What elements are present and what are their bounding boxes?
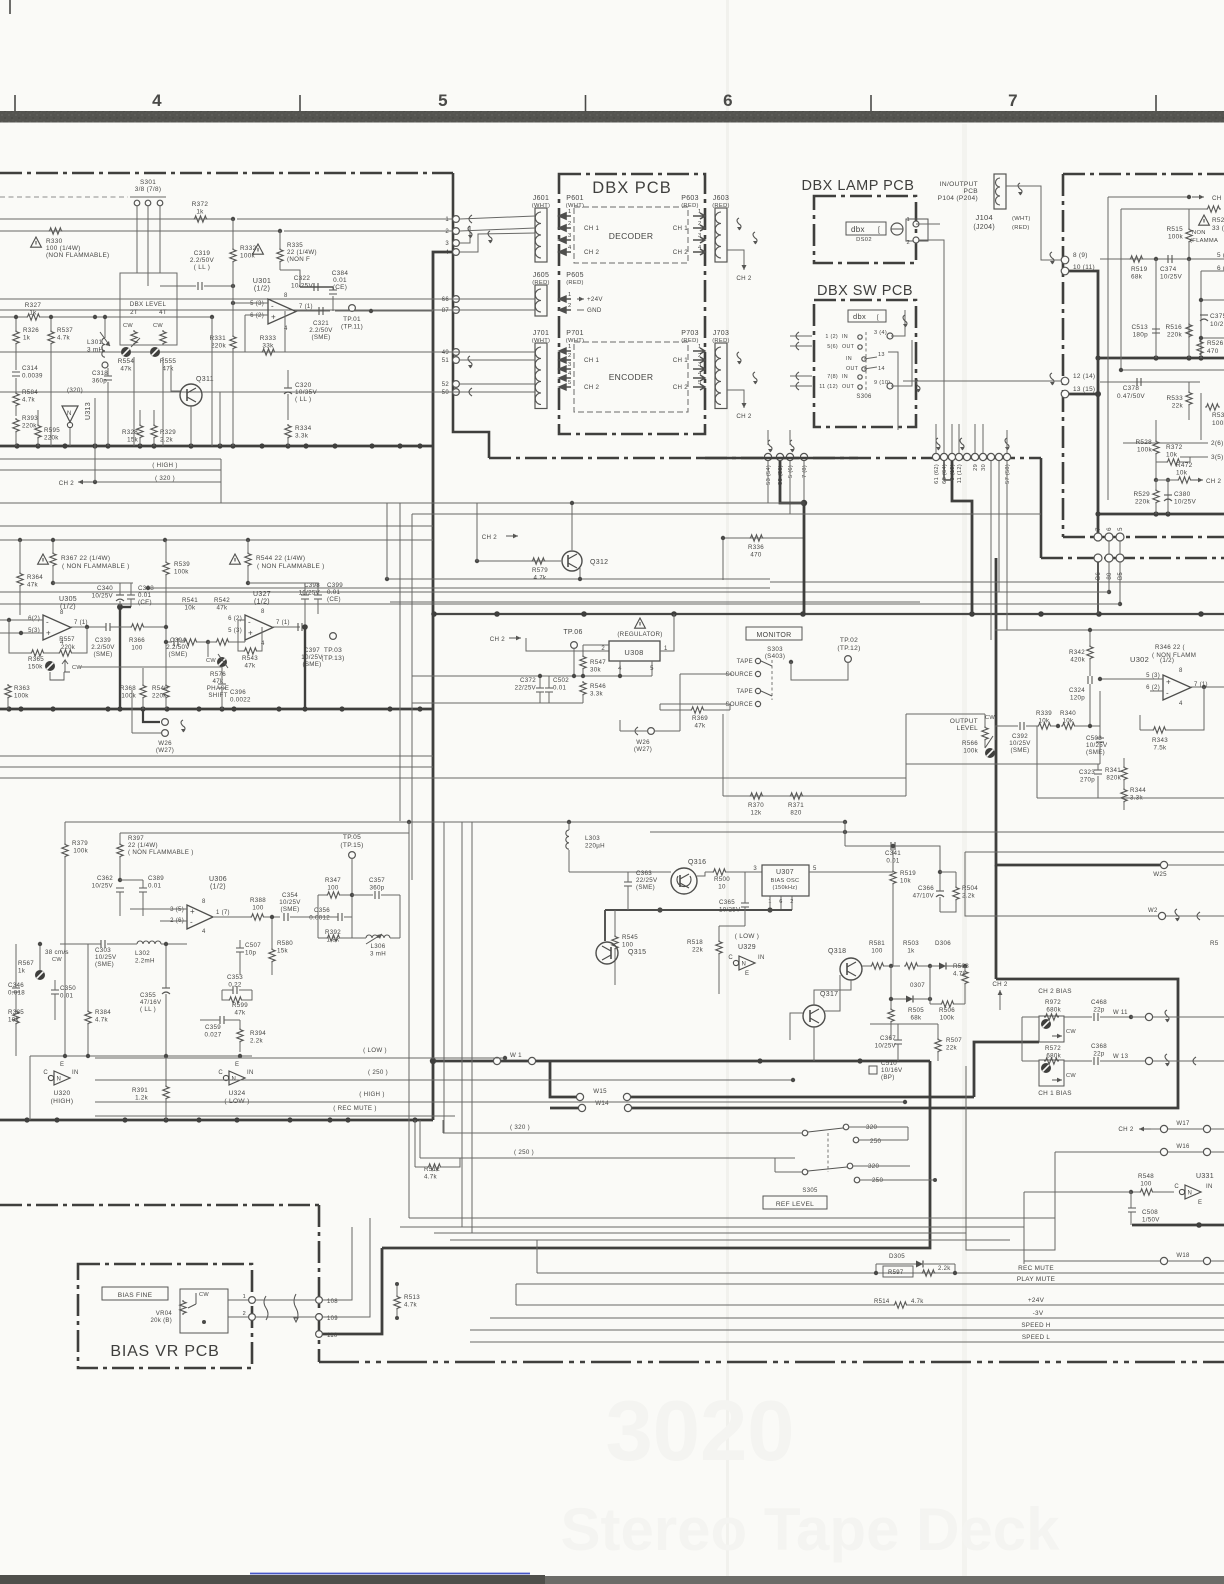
svg-text:DBX LAMP PCB: DBX LAMP PCB [802,178,915,194]
svg-text:N: N [1188,1191,1192,1197]
svg-text:6: 6 [723,91,733,110]
svg-text:Q316: Q316 [688,859,706,866]
svg-text:4.7k: 4.7k [95,1017,109,1024]
connector circles 53 55 5 7 [764,453,771,460]
page corner mark [9,0,11,14]
svg-text:(NON FLAMMABLE): (NON FLAMMABLE) [46,252,109,259]
svg-text:( LL ): ( LL ) [194,264,210,271]
wires U301 [233,302,268,304]
resistor R369 [660,709,690,711]
svg-text:3 mH: 3 mH [87,347,104,354]
svg-text:N: N [742,962,746,968]
svg-text:15k: 15k [277,948,288,955]
svg-text:10 (11): 10 (11) [1073,264,1095,271]
connector 108 109 110 [316,1297,323,1304]
wires below B pins [1097,562,1099,614]
svg-text:47k: 47k [162,366,174,373]
svg-text:1/50V: 1/50V [1142,1217,1160,1224]
svg-text:10/35V: 10/35V [295,389,317,396]
svg-text:TP.02: TP.02 [840,637,858,644]
svg-text:(HIGH): (HIGH) [51,1098,74,1105]
svg-text:38 cm/s: 38 cm/s [45,949,69,956]
svg-text:U305: U305 [59,596,77,603]
svg-text:Q311: Q311 [196,376,214,383]
svg-text:C365: C365 [719,899,735,906]
svg-text:5 (3): 5 (3) [228,628,242,634]
line y=703 mid [412,702,583,704]
inverter U324 [223,1075,228,1080]
svg-text:22k: 22k [1172,403,1184,410]
svg-text:+: + [1166,678,1171,687]
svg-text:CW: CW [199,1292,209,1298]
svg-text:C508: C508 [1142,1209,1158,1216]
svg-text:REF LEVEL: REF LEVEL [776,1201,814,1208]
svg-text:( 320 ): ( 320 ) [510,1124,530,1131]
svg-text:P601: P601 [566,195,584,202]
svg-text:6 (2): 6 (2) [250,313,264,319]
svg-text:(SME): (SME) [95,961,114,968]
svg-text:R554: R554 [118,358,135,365]
wire row y=231 [0,230,280,232]
svg-text:3/8 (7/8): 3/8 (7/8) [135,186,162,193]
svg-text:(TP.11): (TP.11) [341,324,363,331]
wires Q317 [790,1013,803,1040]
svg-text:220k: 220k [22,423,37,430]
W26 right jumper [635,727,638,735]
svg-text:4.7k: 4.7k [22,397,36,404]
svg-text:(FLAMMA: (FLAMMA [1190,238,1218,244]
svg-text:R519: R519 [1131,266,1148,273]
svg-text:680k: 680k [1046,1007,1061,1014]
svg-text:C378: C378 [1123,385,1140,392]
svg-text:7.5k: 7.5k [1154,745,1168,752]
svg-text:CH 2: CH 2 [584,384,600,391]
wires U308 [660,614,674,651]
svg-text:(RED): (RED) [532,280,550,286]
ruler tick marks [14,95,16,111]
connector J603 [715,208,727,262]
lines above U320 [30,1055,252,1057]
svg-text:C375: C375 [1210,313,1224,320]
long line y=592 [0,591,1109,593]
svg-text:0.0022: 0.0022 [230,697,251,704]
mid bus y=614 [433,613,1224,615]
svg-text:R347: R347 [325,877,341,884]
svg-text:420k: 420k [1070,657,1085,664]
pins 12(14) 13(15) [1061,377,1069,385]
BIAS VR pins 1 2 [249,1297,256,1304]
svg-text:R339: R339 [1036,710,1052,717]
IN/OUTPUT PCB bottom border [1063,536,1224,539]
svg-text:CH 2: CH 2 [59,480,75,487]
svg-text:(S403): (S403) [765,653,785,660]
svg-text:R391: R391 [132,1087,148,1094]
svg-text:W16: W16 [1176,1144,1190,1150]
wires 108 109 110 right [323,1227,352,1300]
thick net 13(15) [1069,393,1098,396]
W15 jumper circles [576,1093,583,1100]
W14 thick line [550,1107,582,1110]
svg-text:220µH: 220µH [585,843,605,850]
wire J703 out CH2 [727,390,744,408]
svg-text:4: 4 [1179,701,1183,707]
svg-text:R516: R516 [1166,324,1183,331]
twist pair symbols [264,1296,268,1320]
svg-text:BIAS OSC: BIAS OSC [771,878,800,884]
svg-text:0.01: 0.01 [333,277,347,284]
svg-text:(1/2): (1/2) [254,284,270,293]
svg-text:R576: R576 [210,671,226,678]
svg-text:(RED): (RED) [681,338,699,344]
svg-text:BIAS FINE: BIAS FINE [118,1292,153,1299]
svg-text:N: N [57,1077,61,1083]
resistor R334 [285,424,291,439]
svg-text:R330: R330 [46,238,63,245]
svg-text:3 (5): 3 (5) [170,907,184,913]
svg-text:51: 51 [442,358,450,364]
svg-text:250: 250 [870,1138,881,1145]
svg-text:3: 3 [568,362,572,368]
svg-text:R508: R508 [953,963,969,970]
svg-text:30k: 30k [590,667,601,674]
thick bus y=514 right [1098,513,1224,516]
svg-text:(150kHz): (150kHz) [772,885,797,891]
svg-text:R346 22 (: R346 22 ( [1155,644,1186,651]
svg-text:E: E [745,971,749,977]
svg-text:R365: R365 [28,656,44,663]
long rows y=1218-1246 [409,1217,1055,1219]
svg-text:CH 1: CH 1 [673,357,689,364]
top ruler bar [0,111,1224,123]
svg-text:(J204): (J204) [973,224,995,231]
ENCODER dashed box [574,342,688,412]
svg-text:110: 110 [327,1333,338,1339]
svg-text:10k: 10k [185,605,196,612]
svg-text:CW: CW [52,957,62,963]
svg-text:820: 820 [790,810,801,817]
solid border overlay at connector group [700,457,858,460]
wires U331 [1024,1191,1131,1193]
wire U301 out row [335,310,433,312]
svg-text:10/25V: 10/25V [875,1043,897,1050]
svg-text:(SME): (SME) [1086,749,1105,756]
svg-text:2: 2 [568,353,572,359]
svg-text:+: + [190,907,195,916]
svg-text:7 (8): 7 (8) [802,465,808,478]
svg-text:( NON FLAMMABLE ): ( NON FLAMMABLE ) [62,563,130,570]
svg-text:U327: U327 [253,591,271,598]
dbx logo box DS02 [846,222,886,235]
svg-text:L306: L306 [371,943,386,950]
svg-text:R503: R503 [903,940,919,947]
trimmer wires down [133,357,135,446]
CH1 BIAS thick return y=1225 [1132,1224,1224,1227]
R370 R371 row [723,795,906,797]
svg-text:SHIFT: SHIFT [208,692,227,699]
svg-text:E: E [60,1062,64,1068]
svg-text:C340: C340 [97,585,113,592]
svg-text:5 (3): 5 (3) [1146,673,1160,679]
svg-text:( LOW ): ( LOW ) [363,1047,387,1054]
svg-text:22/25V: 22/25V [636,877,658,884]
wire row y=219 R372 [0,218,233,220]
svg-text:U324: U324 [229,1090,246,1097]
svg-text:2: 2 [698,221,702,227]
svg-text:2: 2 [243,1311,246,1317]
trimmer R576 phase shift [217,657,227,667]
svg-text:4: 4 [202,929,206,935]
svg-text:R329: R329 [160,429,176,436]
svg-text:4: 4 [698,371,702,377]
long line y=832 [650,831,1224,833]
svg-text:CH: CH [1212,195,1222,202]
svg-text:2.2k: 2.2k [962,893,976,900]
connector J703 [715,343,727,409]
svg-text:8: 8 [1179,668,1183,674]
svg-text:( NON FLAMMABLE ): ( NON FLAMMABLE ) [128,849,194,856]
svg-text:(WHT): (WHT) [532,338,551,344]
wire J603 out CH2 [727,250,744,270]
svg-text:dbx: dbx [851,225,865,234]
connector J701 [535,343,547,409]
svg-text:( 250 ): ( 250 ) [368,1069,388,1076]
svg-text:(1/2): (1/2) [254,599,270,606]
svg-text:( NON FLAMMABLE ): ( NON FLAMMABLE ) [257,563,325,570]
svg-text:R367 22 (1/4W): R367 22 (1/4W) [61,555,110,562]
svg-text:68k: 68k [1131,274,1143,281]
svg-text:2.2/50V: 2.2/50V [309,327,333,334]
svg-text:-: - [1166,689,1169,698]
svg-text:R343: R343 [1152,737,1168,744]
svg-text:VR04: VR04 [156,1311,173,1317]
svg-text:IN: IN [842,334,848,340]
svg-text:220k: 220k [1135,499,1151,506]
op-amp box right partial [1201,270,1224,272]
resistor R336 [723,537,803,539]
W15 thick line [550,1061,580,1097]
svg-text:DBX LEVEL: DBX LEVEL [130,301,167,308]
svg-text:R529: R529 [1134,491,1151,498]
svg-text:(1/2): (1/2) [210,884,226,891]
svg-text:(TP.13): (TP.13) [321,655,344,662]
svg-text:D306: D306 [935,940,951,947]
svg-text:PCB: PCB [964,188,979,195]
svg-text:4: 4 [568,371,572,377]
lamp DS02 symbol [891,223,903,235]
svg-text:R541: R541 [182,597,198,604]
svg-text:C354: C354 [282,892,298,899]
svg-text:3: 3 [698,362,702,368]
svg-text:(CE): (CE) [327,596,341,603]
svg-text:C: C [218,1070,223,1076]
svg-text:2: 2 [601,646,605,652]
svg-text:IN: IN [1206,1184,1213,1190]
MONITOR box [746,627,802,640]
svg-text:5 (6): 5 (6) [788,465,794,478]
svg-text:R580: R580 [277,940,293,947]
svg-text:R328: R328 [122,429,138,436]
svg-text:L302: L302 [135,950,150,957]
TP03 [330,633,337,640]
connector J601 [535,208,547,262]
svg-text:100k: 100k [1168,234,1184,241]
svg-text:63 (64): 63 (64) [942,464,948,484]
trimmer R972 [1039,1016,1064,1042]
svg-text:4: 4 [152,91,162,110]
svg-text:R393: R393 [22,415,38,422]
resistor R367 warning [52,540,54,552]
main PCB pins 49 51 52 50 [453,349,460,356]
svg-text:( HIGH ): ( HIGH ) [359,1091,384,1098]
svg-text:( LL ): ( LL ) [140,1006,156,1013]
svg-text:C303: C303 [95,947,111,954]
svg-text:2(6): 2(6) [1211,440,1224,447]
svg-text:R599: R599 [232,1002,248,1009]
svg-text:R544 22 (1/4W): R544 22 (1/4W) [256,555,305,562]
svg-text:TP.05: TP.05 [343,834,361,841]
wires U306 [130,908,187,910]
svg-text:R342: R342 [1069,649,1085,656]
svg-text:TP.01: TP.01 [343,316,361,323]
long line y=540 [0,539,433,541]
svg-text:CH 2: CH 2 [992,981,1008,988]
svg-text:L301: L301 [87,339,103,346]
svg-text:820k: 820k [1106,775,1121,782]
DBX LEVEL box [120,273,177,345]
svg-text:C397: C397 [304,647,320,654]
lower PCB border vertical x=319 [318,1205,321,1362]
bus vertical x=433 [433,252,452,1120]
svg-text:1: 1 [568,344,572,350]
svg-text:4.7k: 4.7k [911,1299,924,1305]
svg-text:10/25V: 10/25V [92,883,114,890]
svg-text:J603: J603 [713,195,729,202]
bus y=910 bias [605,909,792,911]
svg-text:OUT: OUT [846,366,859,372]
svg-text:P703: P703 [681,330,699,337]
svg-text:CH 2: CH 2 [482,534,498,541]
svg-text:(RED): (RED) [712,203,730,209]
svg-text:[: [ [878,227,880,234]
DBX PCB outline box [559,174,705,434]
svg-text:R542: R542 [214,597,230,604]
svg-text:CW: CW [153,323,163,329]
long line y=630 right [995,629,1224,631]
svg-text:10/25V: 10/25V [1009,740,1031,747]
line y=503 mid [387,502,803,504]
svg-text:R518: R518 [687,939,703,946]
svg-text:SPEED H: SPEED H [1021,1322,1050,1329]
svg-text:CW: CW [1066,1029,1076,1035]
svg-text:R526: R526 [1207,340,1224,347]
switch right contacts wires [849,1126,908,1128]
W26 left jumper [143,709,160,722]
svg-text:3 mH: 3 mH [370,951,386,958]
ground bus y=1120 [0,1119,433,1122]
thick riser x=382 to BIAS VR line [319,1248,382,1334]
transistor Q312 [562,551,582,571]
long line y=602 [390,601,920,603]
W16 row [1160,1148,1167,1155]
svg-text:8: 8 [261,609,265,615]
svg-text:C367: C367 [880,1035,896,1042]
svg-text:W26: W26 [636,739,650,746]
svg-text:R543: R543 [242,655,258,662]
svg-text:W14: W14 [595,1100,609,1107]
svg-text:Stereo Tape Deck: Stereo Tape Deck [560,1496,1060,1563]
wire Q312 row [506,535,518,537]
svg-text:R579: R579 [532,567,548,574]
svg-text:R327: R327 [25,302,42,309]
svg-text:( LL ): ( LL ) [295,396,311,403]
svg-text:R548: R548 [1138,1173,1154,1180]
svg-text:( HIGH ): ( HIGH ) [152,462,177,469]
svg-text:10/25V: 10/25V [92,593,114,600]
svg-text:+: + [46,629,51,638]
svg-text:R595: R595 [44,427,60,434]
svg-text:(320): (320) [67,387,83,394]
svg-text:MONITOR: MONITOR [756,632,791,639]
svg-text:R581: R581 [869,940,885,947]
switch S305 upper [802,1130,808,1136]
svg-text:R372: R372 [1166,444,1183,451]
transistor Q311 [180,384,202,406]
pins B6 80 B5 row [1094,554,1102,562]
svg-text:W 11: W 11 [1113,1010,1128,1016]
long line y=582 [770,581,1224,583]
svg-text:5: 5 [813,866,817,872]
wire row y=259 [1100,258,1224,260]
svg-text:150k: 150k [28,664,43,671]
svg-text:S305: S305 [802,1188,818,1194]
wires pins to J601 [237,218,452,220]
svg-text:P104 (P204): P104 (P204) [938,195,978,202]
svg-text:12k: 12k [751,810,762,817]
svg-text:R566: R566 [962,740,978,747]
svg-text:CH 1 BIAS: CH 1 BIAS [1038,1090,1072,1097]
svg-text:R567: R567 [18,960,34,967]
svg-text:DBX SW PCB: DBX SW PCB [817,283,913,299]
svg-text:2.2/50V: 2.2/50V [91,644,115,651]
svg-text:10/2: 10/2 [1210,321,1224,328]
svg-text:R336: R336 [748,544,764,551]
wires bias pots left [1022,1016,1039,1018]
svg-text:68k: 68k [911,1015,922,1022]
main PCB top border [0,172,453,175]
resistor R331 [230,335,236,350]
svg-text:W26: W26 [158,740,172,747]
svg-text:22 (1/4W): 22 (1/4W) [128,842,158,849]
main PCB border to right edge [1041,557,1224,560]
svg-text:(W27): (W27) [156,747,174,754]
svg-text:CH 1: CH 1 [673,225,689,232]
svg-text:10: 10 [718,884,726,891]
svg-text:(WHT): (WHT) [532,203,551,209]
W1 jumper [493,1057,500,1064]
svg-text:R472: R472 [1176,462,1193,469]
svg-text:( REC MUTE ): ( REC MUTE ) [333,1105,376,1112]
svg-text:-3V: -3V [1033,1310,1044,1317]
svg-text:R372: R372 [192,201,209,208]
svg-text:6(2): 6(2) [28,616,40,622]
svg-text:C502: C502 [553,677,569,684]
resistor R519 [1129,256,1144,262]
ground bus y=709 [0,708,433,711]
svg-text:3: 3 [445,241,449,247]
svg-text:C339: C339 [95,637,111,644]
svg-text:CH 2: CH 2 [490,636,506,643]
svg-text:TP.06: TP.06 [563,629,582,636]
